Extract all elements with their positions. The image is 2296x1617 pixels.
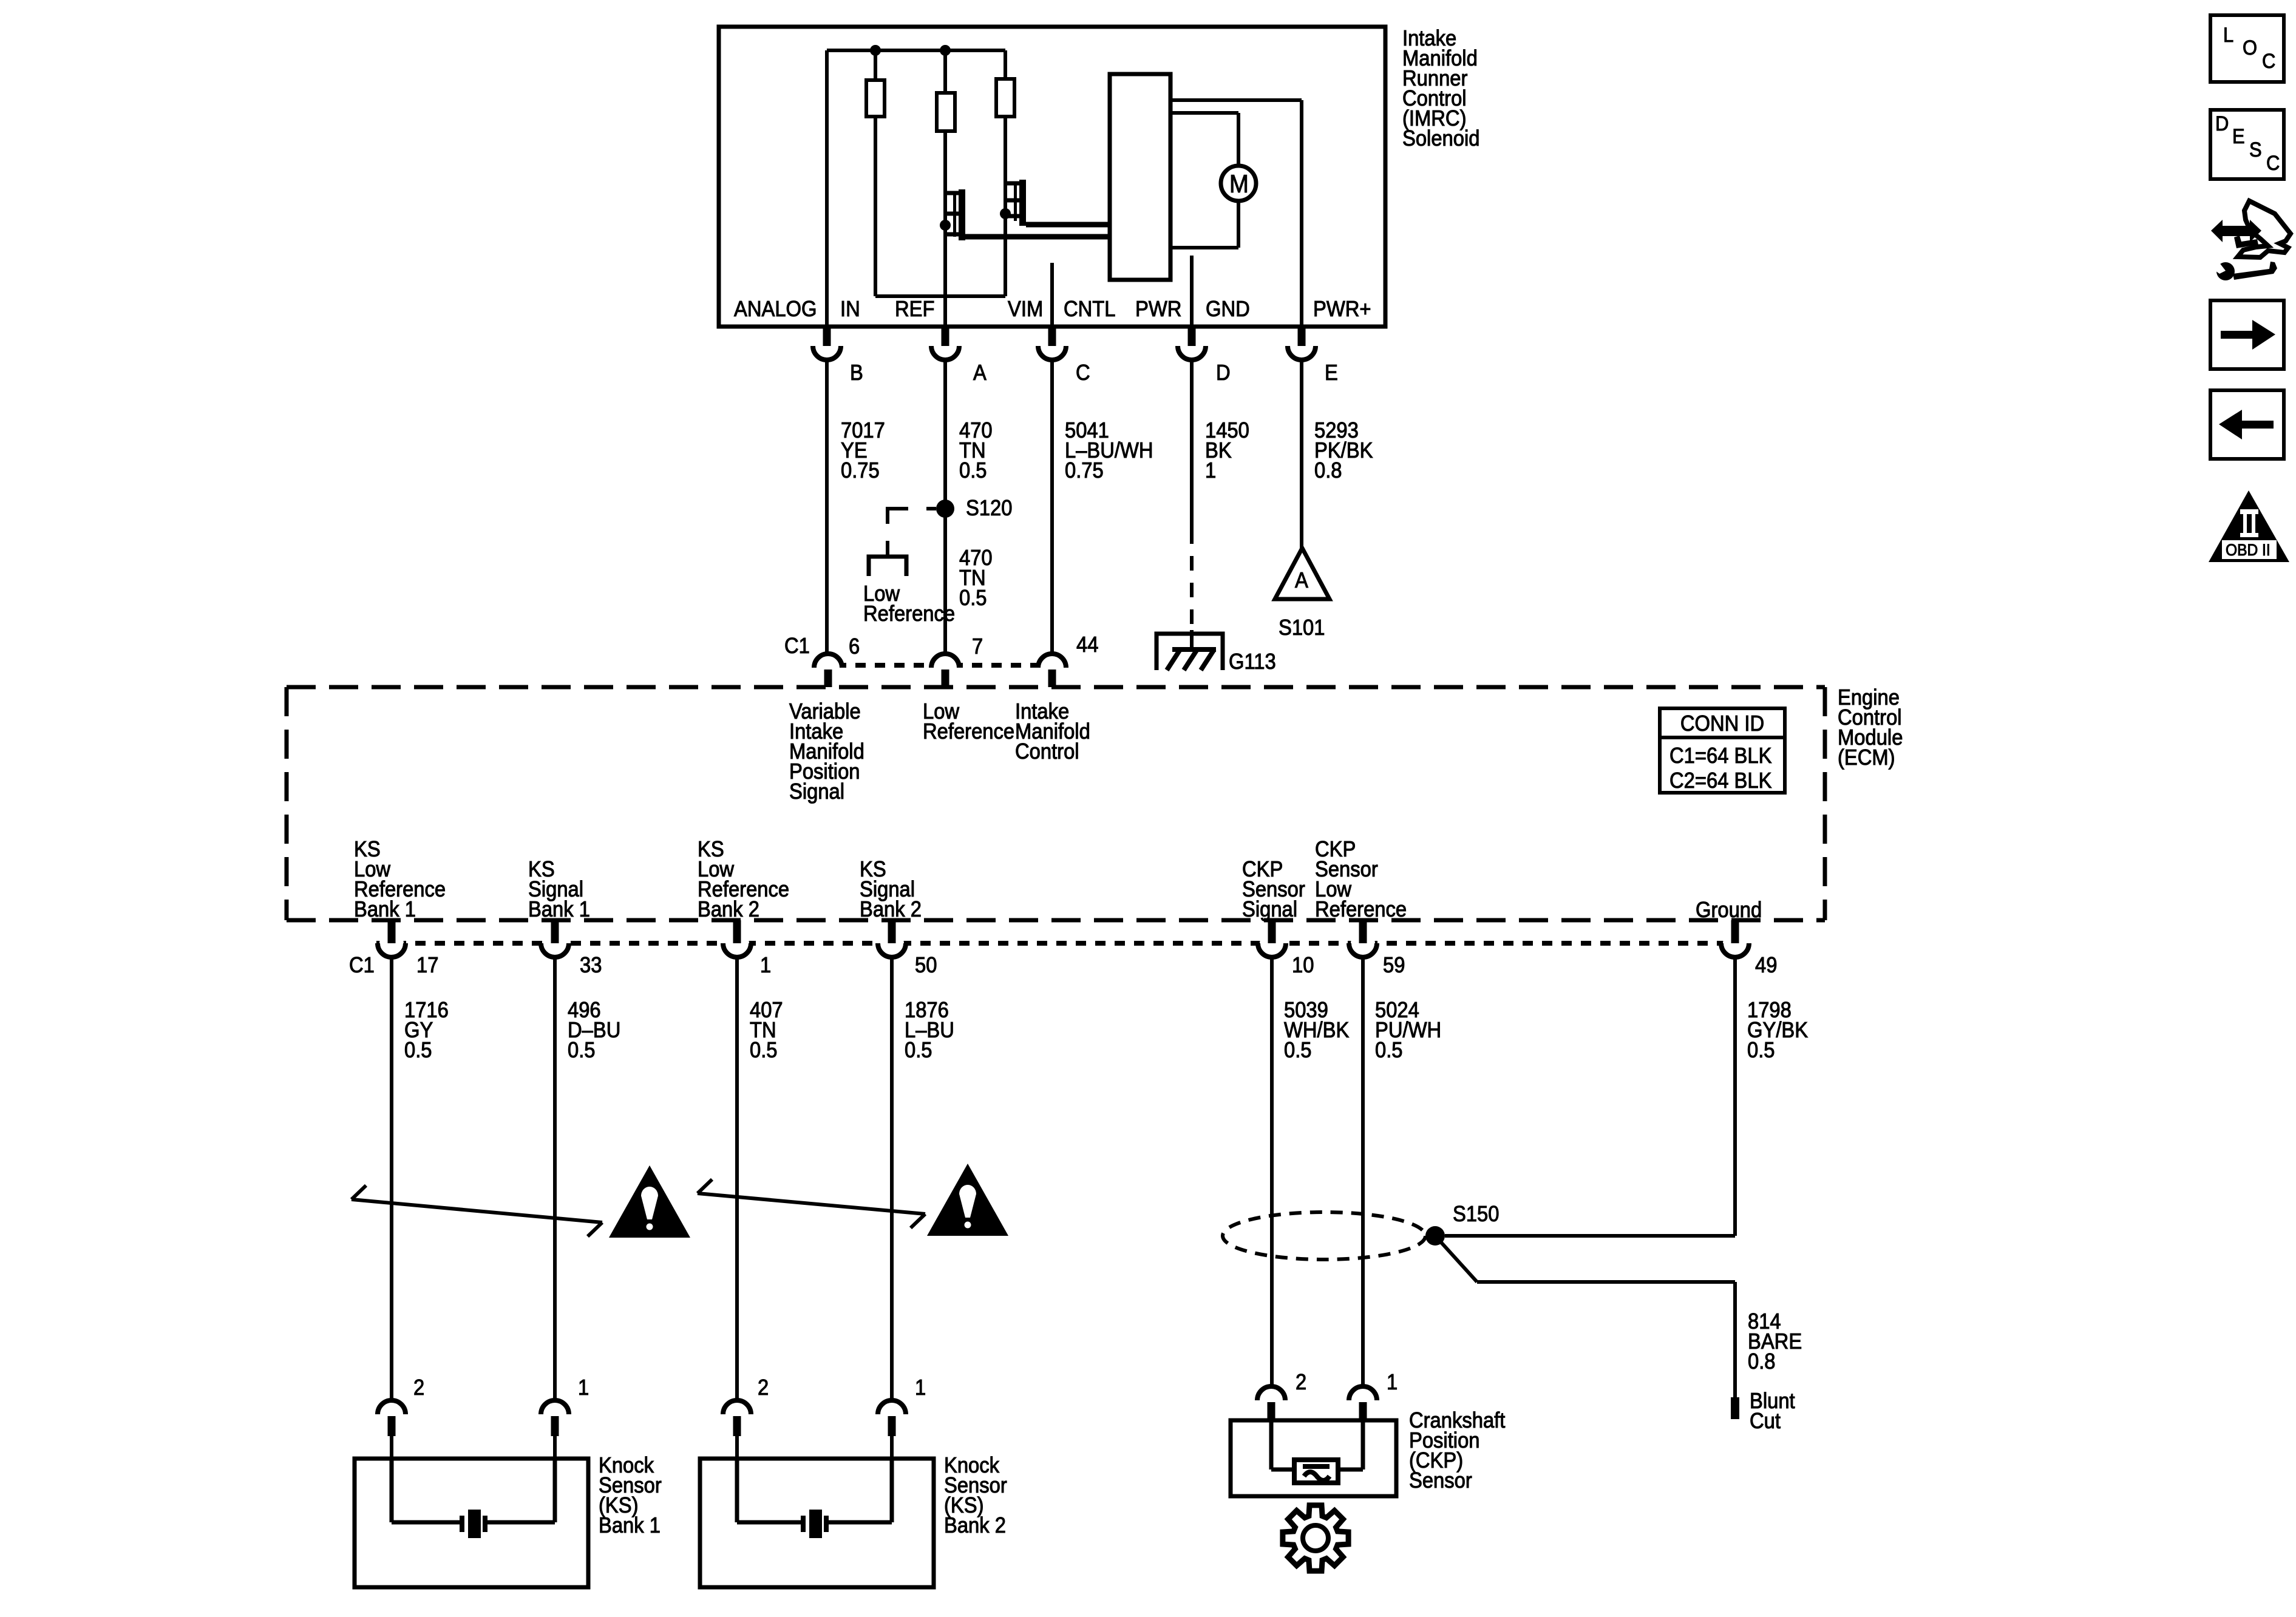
svg-text:Cut: Cut	[1750, 1409, 1781, 1434]
svg-text:Solenoid: Solenoid	[1402, 127, 1479, 151]
svg-text:Ground: Ground	[1696, 898, 1762, 923]
svg-text:Bank 2: Bank 2	[698, 898, 759, 922]
svg-text:0.5: 0.5	[959, 459, 987, 483]
svg-text:ANALOG: ANALOG	[734, 297, 817, 322]
svg-text:A: A	[1295, 569, 1308, 593]
svg-text:Bank 1: Bank 1	[528, 898, 590, 922]
svg-text:0.5: 0.5	[1375, 1039, 1403, 1063]
svg-text:C1=64 BLK: C1=64 BLK	[1669, 744, 1771, 768]
svg-text:CNTL: CNTL	[1064, 297, 1116, 322]
svg-text:C: C	[2262, 50, 2275, 73]
svg-text:0.5: 0.5	[959, 586, 987, 611]
svg-text:CONN ID: CONN ID	[1680, 712, 1764, 736]
svg-text:PWR: PWR	[1135, 297, 1181, 322]
svg-text:C2=64 BLK: C2=64 BLK	[1669, 769, 1771, 793]
svg-text:Reference: Reference	[863, 602, 955, 626]
svg-text:E: E	[2232, 125, 2245, 148]
svg-text:50: 50	[915, 954, 937, 978]
svg-text:D: D	[2215, 112, 2229, 135]
svg-text:D: D	[1216, 361, 1231, 385]
svg-text:0.75: 0.75	[841, 459, 880, 483]
svg-text:IN: IN	[840, 297, 860, 322]
svg-text:C1: C1	[784, 634, 810, 659]
svg-text:0.8: 0.8	[1748, 1350, 1776, 1374]
svg-text:0.5: 0.5	[1747, 1039, 1775, 1063]
svg-text:M: M	[1229, 169, 1249, 198]
svg-text:1: 1	[578, 1376, 589, 1400]
svg-text:2: 2	[758, 1376, 769, 1400]
svg-text:Control: Control	[1015, 740, 1079, 764]
svg-text:C: C	[2266, 152, 2280, 175]
svg-text:S120: S120	[966, 497, 1012, 521]
svg-text:Bank 1: Bank 1	[599, 1514, 661, 1538]
svg-text:S150: S150	[1453, 1202, 1499, 1227]
svg-text:1: 1	[760, 954, 771, 978]
svg-text:44: 44	[1076, 633, 1098, 657]
svg-text:17: 17	[416, 954, 438, 978]
svg-text:REF: REF	[895, 297, 934, 322]
svg-text:GND: GND	[1206, 297, 1250, 322]
svg-text:Signal: Signal	[1242, 898, 1297, 922]
svg-text:C1: C1	[349, 954, 375, 978]
svg-text:E: E	[1325, 361, 1338, 385]
svg-text:Bank 2: Bank 2	[860, 898, 922, 922]
svg-text:Bank 1: Bank 1	[354, 898, 416, 922]
svg-text:0.8: 0.8	[1314, 459, 1342, 483]
svg-text:Reference: Reference	[1315, 898, 1407, 922]
svg-text:33: 33	[580, 954, 602, 978]
svg-text:59: 59	[1383, 954, 1405, 978]
svg-text:10: 10	[1292, 954, 1314, 978]
svg-text:7: 7	[972, 635, 983, 659]
svg-text:0.5: 0.5	[404, 1039, 432, 1063]
svg-text:L: L	[2223, 24, 2233, 47]
svg-text:Signal: Signal	[789, 780, 844, 804]
svg-text:O: O	[2243, 36, 2257, 59]
svg-text:S101: S101	[1279, 616, 1325, 640]
svg-text:0.5: 0.5	[750, 1039, 778, 1063]
svg-text:Reference: Reference	[923, 720, 1014, 744]
svg-text:0.5: 0.5	[1284, 1039, 1312, 1063]
svg-text:2: 2	[1296, 1371, 1306, 1395]
svg-text:0.5: 0.5	[568, 1039, 596, 1063]
svg-text:S: S	[2249, 138, 2262, 161]
svg-text:0.75: 0.75	[1065, 459, 1104, 483]
svg-text:2: 2	[413, 1376, 424, 1400]
svg-text:C: C	[1076, 361, 1090, 385]
svg-text:B: B	[850, 361, 863, 385]
svg-text:Bank 2: Bank 2	[944, 1514, 1006, 1538]
svg-text:PWR+: PWR+	[1313, 297, 1371, 322]
svg-text:G113: G113	[1229, 650, 1276, 674]
svg-text:(ECM): (ECM)	[1838, 746, 1895, 770]
svg-text:1: 1	[1387, 1371, 1398, 1395]
svg-text:0.5: 0.5	[905, 1039, 932, 1063]
svg-text:1: 1	[915, 1376, 926, 1400]
svg-text:A: A	[973, 361, 987, 385]
svg-text:1: 1	[1205, 459, 1216, 483]
svg-text:VIM: VIM	[1008, 297, 1043, 322]
svg-text:OBD II: OBD II	[2226, 541, 2271, 559]
svg-text:Sensor: Sensor	[1409, 1469, 1472, 1493]
svg-text:49: 49	[1755, 954, 1777, 978]
svg-text:6: 6	[849, 635, 860, 659]
